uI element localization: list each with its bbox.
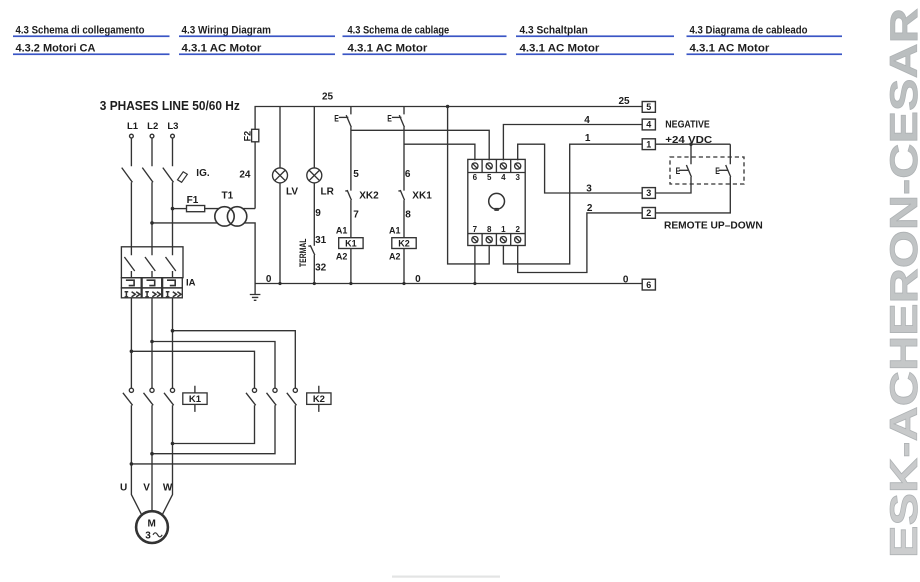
svg-text:ESK-ACHERON-CESAR: ESK-ACHERON-CESAR xyxy=(883,8,920,558)
svg-text:A1: A1 xyxy=(336,226,348,236)
svg-text:7: 7 xyxy=(353,210,359,221)
svg-text:9: 9 xyxy=(315,208,321,219)
svg-text:1: 1 xyxy=(501,225,506,234)
svg-text:3: 3 xyxy=(646,188,651,198)
svg-text:4.3.1 AC Motor: 4.3.1 AC Motor xyxy=(182,42,263,54)
svg-text:8: 8 xyxy=(405,210,411,221)
svg-text:2: 2 xyxy=(515,225,520,234)
svg-text:A2: A2 xyxy=(389,252,401,262)
svg-text:24: 24 xyxy=(239,169,251,180)
svg-text:K2: K2 xyxy=(398,238,410,248)
svg-text:4.3.1 AC Motor: 4.3.1 AC Motor xyxy=(348,42,429,54)
svg-text:K1: K1 xyxy=(189,394,202,405)
svg-text:4.3.1 AC Motor: 4.3.1 AC Motor xyxy=(690,42,771,54)
svg-text:4.3 Schema di collegamento: 4.3 Schema di collegamento xyxy=(16,24,145,36)
svg-text:A2: A2 xyxy=(336,252,348,262)
svg-text:REMOTE UP–DOWN: REMOTE UP–DOWN xyxy=(664,219,763,231)
svg-text:32: 32 xyxy=(315,262,327,273)
svg-text:5: 5 xyxy=(487,173,492,182)
svg-text:7: 7 xyxy=(473,225,478,234)
svg-text:LR: LR xyxy=(321,187,335,198)
svg-text:2: 2 xyxy=(587,203,593,214)
svg-text:K1: K1 xyxy=(345,238,357,248)
svg-text:31: 31 xyxy=(315,235,327,246)
svg-text:0: 0 xyxy=(415,274,421,285)
svg-text:L2: L2 xyxy=(147,121,158,132)
svg-text:E: E xyxy=(334,113,339,124)
svg-text:3: 3 xyxy=(145,531,151,542)
svg-text:NEGATIVE: NEGATIVE xyxy=(665,118,710,130)
svg-text:W: W xyxy=(163,482,173,493)
svg-text:3: 3 xyxy=(515,173,520,182)
svg-text:XK1: XK1 xyxy=(412,191,432,202)
svg-text:T1: T1 xyxy=(222,191,234,202)
svg-text:L3: L3 xyxy=(167,121,178,132)
svg-text:IA: IA xyxy=(186,278,196,289)
svg-text:4.3 Wiring Diagram: 4.3 Wiring Diagram xyxy=(182,24,272,36)
svg-text:F2: F2 xyxy=(242,131,252,142)
svg-text:M: M xyxy=(148,519,156,530)
svg-text:6: 6 xyxy=(646,280,651,290)
svg-text:3: 3 xyxy=(586,183,592,194)
svg-text:4.3.2 Motori CA: 4.3.2 Motori CA xyxy=(16,42,96,54)
svg-text:1: 1 xyxy=(646,139,651,149)
svg-text:6: 6 xyxy=(473,173,478,182)
svg-text:0: 0 xyxy=(623,274,629,285)
svg-text:+24 VDC: +24 VDC xyxy=(665,134,712,146)
svg-text:25: 25 xyxy=(618,96,630,107)
svg-text:XK2: XK2 xyxy=(359,191,379,202)
svg-text:4: 4 xyxy=(501,173,506,182)
svg-text:4.3 Schema de cablage: 4.3 Schema de cablage xyxy=(348,24,450,36)
svg-text:8: 8 xyxy=(487,225,492,234)
svg-text:5: 5 xyxy=(353,169,359,180)
svg-text:25: 25 xyxy=(322,92,334,103)
svg-text:5: 5 xyxy=(646,102,651,112)
svg-text:F1: F1 xyxy=(187,195,199,206)
svg-text:2: 2 xyxy=(646,208,651,218)
svg-text:E: E xyxy=(676,166,681,176)
svg-text:4.3 Schaltplan: 4.3 Schaltplan xyxy=(520,24,589,36)
svg-text:3 PHASES LINE 50/60 Hz: 3 PHASES LINE 50/60 Hz xyxy=(100,99,240,113)
svg-text:4.3.1 AC Motor: 4.3.1 AC Motor xyxy=(520,42,601,54)
svg-text:U: U xyxy=(120,482,127,493)
svg-text:4: 4 xyxy=(646,120,651,130)
svg-text:E: E xyxy=(387,113,392,124)
svg-text:LV: LV xyxy=(286,187,298,198)
svg-text:1: 1 xyxy=(585,133,591,144)
svg-text:V: V xyxy=(143,482,150,493)
svg-text:E: E xyxy=(715,166,720,176)
svg-text:6: 6 xyxy=(405,169,411,180)
svg-text:0: 0 xyxy=(266,274,272,285)
svg-text:IG.: IG. xyxy=(196,168,210,179)
svg-text:4: 4 xyxy=(584,115,590,126)
svg-text:L1: L1 xyxy=(127,121,139,132)
svg-text:K2: K2 xyxy=(313,394,325,405)
svg-text:A1: A1 xyxy=(389,226,401,236)
svg-text:4.3 Diagrama de cableado: 4.3 Diagrama de cableado xyxy=(690,24,808,36)
svg-text:TERMAL: TERMAL xyxy=(298,238,308,267)
